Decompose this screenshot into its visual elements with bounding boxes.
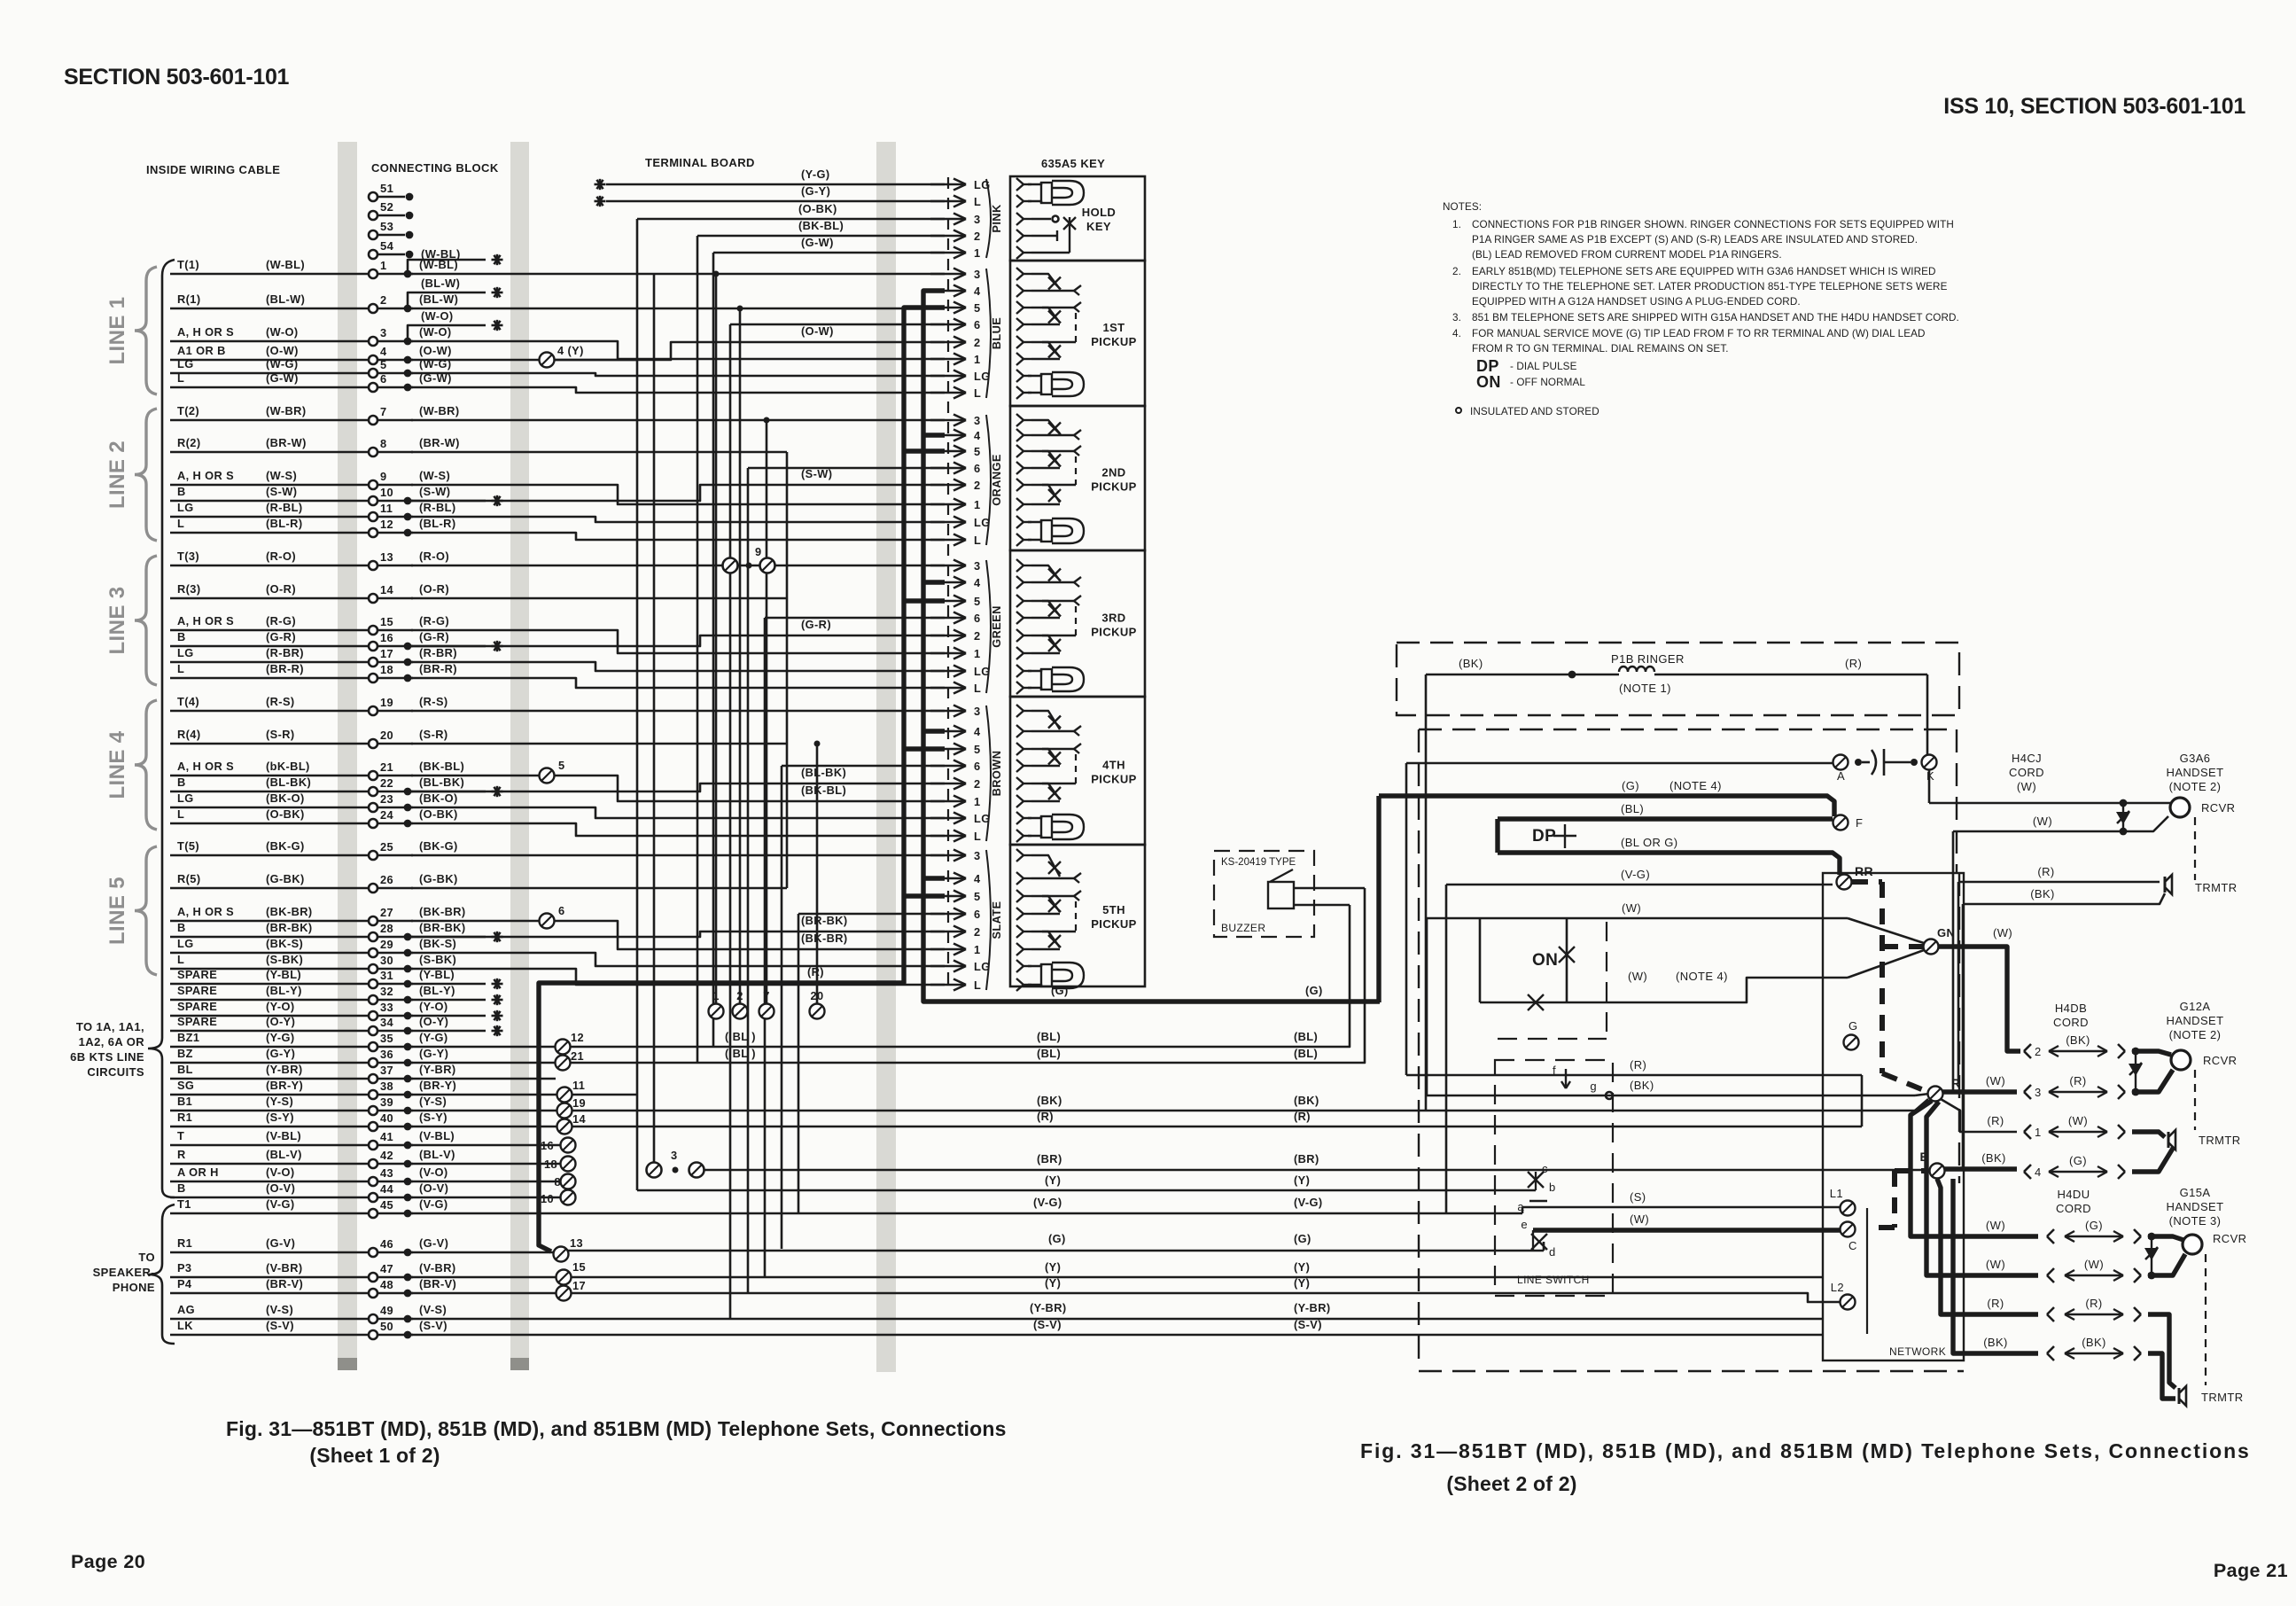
svg-text:29: 29 — [380, 938, 393, 951]
svg-text:3RD: 3RD — [1101, 612, 1125, 625]
ringer (R) lead to K — [1926, 674, 1929, 755]
thick bus to pickup terminals 4 / (G) lead — [923, 291, 1380, 1002]
brace group BROWN — [986, 706, 991, 841]
5TH PICKUP contacts — [1023, 854, 1031, 856]
arrow ORANGE 2 — [930, 484, 966, 487]
arrow BROWN 5 — [930, 748, 966, 751]
svg-text:FOR MANUAL SERVICE MOVE (G) TI: FOR MANUAL SERVICE MOVE (G) TIP LEAD FRO… — [1472, 328, 1926, 339]
brace LINE 2 — [135, 409, 157, 541]
2ND PICKUP contacts — [1023, 419, 1031, 421]
wire bus vertical x844 — [747, 468, 750, 1293]
svg-text:DP: DP — [1532, 827, 1556, 846]
cord wire (R) from R — [1941, 1099, 2017, 1132]
svg-text:48: 48 — [380, 1278, 393, 1291]
svg-text:A: A — [1837, 769, 1845, 783]
svg-text:851 BM TELEPHONE SETS ARE SHIP: 851 BM TELEPHONE SETS ARE SHIPPED WITH G… — [1472, 312, 1959, 324]
svg-text:8: 8 — [380, 437, 387, 450]
thick lead R to H4DU row2 — [1926, 1102, 2038, 1275]
arrow SLATE 5 — [930, 895, 966, 898]
svg-text:LINE SWITCH: LINE SWITCH — [1517, 1274, 1590, 1286]
svg-text:(G-V): (G-V) — [419, 1236, 448, 1250]
svg-text:R(1): R(1) — [177, 292, 200, 306]
svg-text:(G-Y): (G-Y) — [419, 1047, 448, 1060]
second off-normal contact — [1528, 994, 1544, 1010]
scan fold band 1 — [338, 142, 357, 1365]
svg-text:RCVR: RCVR — [2201, 801, 2235, 815]
wire to pickup arrow 6 — [748, 467, 945, 470]
svg-text:(W): (W) — [2033, 815, 2052, 828]
key unit box 2ND PICKUP — [1010, 406, 1145, 550]
svg-text:(G): (G) — [1048, 1232, 1066, 1245]
svg-text:5: 5 — [974, 301, 981, 315]
svg-text:(BK): (BK) — [2066, 1033, 2090, 1047]
svg-text:23: 23 — [380, 792, 393, 806]
arrow BROWN L — [930, 835, 966, 838]
brace group ORANGE — [986, 415, 991, 545]
key unit box HOLD KEY — [1010, 176, 1145, 261]
svg-text:(BK-BL): (BK-BL) — [419, 760, 464, 773]
svg-text:41: 41 — [380, 1130, 393, 1143]
RR thick dashed jumper to GN and R — [1852, 879, 1882, 885]
svg-text:L2: L2 — [1831, 1281, 1844, 1294]
svg-text:(R): (R) — [1845, 657, 1862, 670]
row 22 wire to BROWN arrow 2 — [411, 784, 945, 791]
svg-text:TERMINAL BOARD: TERMINAL BOARD — [645, 156, 755, 169]
svg-text:SPARE: SPARE — [177, 984, 217, 997]
svg-text:(BL): (BL) — [1037, 1047, 1061, 1060]
svg-text:(Y-S): (Y-S) — [419, 1095, 447, 1108]
svg-text:(G-R): (G-R) — [801, 618, 831, 631]
svg-text:(W-S): (W-S) — [266, 469, 297, 482]
wire bus vertical x863 — [764, 618, 767, 1277]
svg-text:HANDSET: HANDSET — [2167, 766, 2224, 779]
svg-text:(R): (R) — [1987, 1114, 2004, 1127]
svg-text:37: 37 — [380, 1064, 393, 1077]
svg-text:31: 31 — [380, 969, 393, 982]
svg-text:LG: LG — [177, 791, 194, 805]
svg-text:(BK): (BK) — [1294, 1094, 1319, 1107]
svg-text:BZ: BZ — [177, 1047, 193, 1060]
svg-text:51: 51 — [380, 182, 393, 195]
arrow BLUE 5 — [930, 307, 966, 309]
arrow SLATE 1 — [930, 948, 966, 951]
svg-text:(G-W): (G-W) — [266, 371, 299, 385]
RCVR G3A6 — [2170, 798, 2190, 817]
svg-text:3.: 3. — [1452, 312, 1461, 324]
svg-text:PICKUP: PICKUP — [1091, 626, 1137, 639]
svg-text:( BL ): ( BL ) — [725, 1047, 756, 1060]
svg-text:6: 6 — [974, 908, 981, 921]
thick stub arrow5 — [904, 598, 945, 603]
svg-text:GREEN: GREEN — [990, 605, 1003, 648]
svg-text:(BL-V): (BL-V) — [419, 1148, 455, 1161]
row 7 wire to ORANGE arrow 3 — [411, 419, 945, 422]
svg-text:(BL): (BL) — [1294, 1030, 1318, 1043]
arrow GREEN 6 — [930, 617, 966, 620]
svg-text:G15A: G15A — [2180, 1186, 2211, 1199]
row 14 wire to bus — [411, 597, 787, 600]
arrow GREEN 4 — [930, 581, 966, 584]
brace group GREEN — [986, 560, 991, 693]
thick stub arrow5 — [904, 448, 945, 453]
svg-text:(W): (W) — [1993, 926, 2012, 939]
H4DB cord conductor 1 (W) — [2024, 1125, 2031, 1132]
scan fold band 3 — [876, 142, 896, 1372]
svg-text:(R): (R) — [2085, 1297, 2102, 1310]
svg-text:6: 6 — [558, 904, 565, 917]
svg-text:EQUIPPED WITH A G12A HANDSET U: EQUIPPED WITH A G12A HANDSET USING A PLU… — [1472, 296, 1801, 308]
thick lead B to H4DU row3 — [1937, 1179, 2038, 1314]
svg-text:(G): (G) — [1305, 984, 1323, 997]
svg-text:L: L — [974, 682, 981, 695]
svg-text:(Y): (Y) — [1294, 1260, 1310, 1274]
svg-text:(W-O): (W-O) — [419, 325, 452, 339]
RCVR G12A — [2132, 1051, 2171, 1055]
svg-text:(Sheet 2 of 2): (Sheet 2 of 2) — [1446, 1472, 1576, 1495]
svg-text:H4DU: H4DU — [2058, 1188, 2090, 1201]
svg-text:9: 9 — [755, 545, 762, 558]
svg-text:(Y-G): (Y-G) — [266, 1031, 295, 1044]
wire to pickup arrow 6 — [798, 913, 945, 916]
key unit box 1ST PICKUP — [1010, 261, 1145, 406]
wire (R) from f — [1406, 1074, 1862, 1077]
svg-text:3: 3 — [974, 268, 981, 281]
svg-text:(BL-V): (BL-V) — [266, 1148, 302, 1161]
4TH PICKUP contacts — [1023, 710, 1031, 712]
svg-text:A, H OR S: A, H OR S — [177, 760, 234, 773]
thick stub arrow4 — [923, 876, 945, 880]
brace group BLUE — [986, 269, 991, 398]
svg-text:CORD: CORD — [2053, 1016, 2089, 1029]
svg-text:L: L — [974, 386, 981, 400]
svg-text:(G-R): (G-R) — [266, 630, 296, 643]
ringer coil wire — [1426, 674, 1619, 676]
thick stub arrow4 — [923, 580, 945, 584]
svg-text:(BL): (BL) — [1621, 802, 1644, 815]
svg-text:R(5): R(5) — [177, 872, 200, 885]
svg-text:HANDSET: HANDSET — [2167, 1200, 2224, 1213]
svg-text:PHONE: PHONE — [113, 1281, 155, 1294]
row 39 connector — [411, 1110, 557, 1112]
svg-text:CONNECTIONS FOR P1B RINGER SHO: CONNECTIONS FOR P1B RINGER SHOWN. RINGER… — [1472, 219, 1954, 230]
svg-text:(BL-BK): (BL-BK) — [266, 776, 311, 789]
svg-text:12: 12 — [380, 518, 393, 531]
arrow SLATE 3 — [930, 854, 966, 857]
svg-text:(Y-O): (Y-O) — [266, 1000, 295, 1013]
svg-text:(R-BL): (R-BL) — [266, 501, 302, 514]
insulated-stored stub row 31 — [408, 983, 486, 986]
svg-text:T(3): T(3) — [177, 550, 199, 563]
svg-text:22: 22 — [380, 776, 393, 790]
terminal B — [1930, 1164, 1945, 1179]
svg-text:(S-W): (S-W) — [419, 485, 450, 498]
svg-text:(R-BL): (R-BL) — [419, 501, 455, 514]
svg-text:(R-O): (R-O) — [266, 550, 296, 563]
thick bus to pickup terminals 5 — [539, 308, 945, 1251]
arrow SLATE LG — [930, 965, 966, 968]
svg-text:(NOTE 1): (NOTE 1) — [1619, 682, 1671, 695]
svg-text:LK: LK — [177, 1319, 193, 1332]
svg-text:46: 46 — [380, 1237, 393, 1251]
svg-text:LINE 3: LINE 3 — [105, 586, 129, 654]
row 11 wire to ORANGE LG — [411, 517, 945, 522]
svg-text:(V-S): (V-S) — [419, 1303, 447, 1316]
svg-text:(W): (W) — [1630, 1212, 1649, 1226]
svg-text:39: 39 — [380, 1095, 393, 1109]
B thick dashed feed — [1895, 1168, 1928, 1173]
arrow BROWN LG — [930, 817, 966, 820]
svg-text:(BK): (BK) — [1981, 1151, 2006, 1165]
svg-text:c: c — [1542, 1162, 1548, 1175]
arrow ORANGE 6 — [930, 467, 966, 470]
svg-text:TO 1A, 1A1,: TO 1A, 1A1, — [76, 1020, 144, 1033]
thick stub arrow4 — [923, 729, 945, 733]
svg-text:(O-W): (O-W) — [801, 324, 834, 338]
svg-text:L1: L1 — [1830, 1187, 1843, 1200]
RCVR G15A — [2148, 1236, 2183, 1240]
note insulated and stored — [1456, 408, 1461, 413]
P1B ringer dashed enclosure — [1397, 643, 1959, 715]
svg-text:(O-Y): (O-Y) — [266, 1015, 295, 1028]
svg-text:2: 2 — [380, 293, 387, 307]
svg-text:L: L — [177, 662, 184, 675]
arrow BLUE 2 — [930, 341, 966, 344]
svg-text:635A5 KEY: 635A5 KEY — [1041, 157, 1105, 170]
TRMTR G3A6 — [2165, 875, 2172, 894]
svg-text:(Y-O): (Y-O) — [419, 1000, 448, 1013]
terminal board dashed vertical — [947, 177, 949, 991]
svg-text:(W): (W) — [2084, 1258, 2104, 1271]
row 30 wire to SLATE L — [411, 969, 945, 985]
svg-text:21: 21 — [380, 760, 393, 774]
svg-text:(BK-O): (BK-O) — [419, 791, 458, 805]
svg-text:1A2, 6A OR: 1A2, 6A OR — [79, 1035, 145, 1049]
wire (Y) to line switch — [637, 1189, 1536, 1192]
svg-text:(BR-Y): (BR-Y) — [266, 1079, 303, 1092]
row 19 wire to BROWN arrow 3 — [411, 710, 945, 713]
arrow BLUE 4 — [930, 290, 966, 292]
off-normal wire — [1480, 1002, 1567, 1004]
wire (W) dial lead to GN — [1427, 917, 1848, 920]
svg-text:(S-Y): (S-Y) — [419, 1111, 448, 1124]
terminal F — [1833, 815, 1848, 830]
svg-text:(BK): (BK) — [2030, 887, 2055, 900]
svg-text:ORANGE: ORANGE — [990, 454, 1003, 506]
line switch contact d — [1531, 1234, 1547, 1250]
H4DB cord conductor 3 (R) — [2024, 1085, 2031, 1092]
row 24 wire to BROWN L — [411, 823, 945, 836]
arrow ORANGE LG — [930, 521, 966, 524]
wire (BK) to TRMTR — [1963, 893, 2165, 904]
svg-text:CIRCUITS: CIRCUITS — [87, 1065, 144, 1079]
svg-text:(Y): (Y) — [1294, 1173, 1310, 1187]
svg-text:RCVR: RCVR — [2213, 1232, 2246, 1245]
svg-text:L: L — [177, 953, 184, 966]
(G) thick vertical to key lead — [1376, 796, 1381, 1002]
terminal 4 wire down-bus — [555, 359, 637, 362]
arrow BLUE LG — [930, 375, 966, 378]
svg-text:Fig. 31—851BT (MD), 851B (MD),: Fig. 31—851BT (MD), 851B (MD), and 851BM… — [226, 1417, 1007, 1440]
svg-text:(BR-R): (BR-R) — [266, 662, 304, 675]
svg-text:L: L — [974, 534, 981, 547]
svg-text:SLATE: SLATE — [990, 900, 1003, 939]
svg-text:3: 3 — [974, 705, 981, 718]
svg-text:5: 5 — [974, 445, 981, 458]
svg-text:24: 24 — [380, 808, 394, 822]
svg-text:(BL) LEAD REMOVED FROM CURRENT: (BL) LEAD REMOVED FROM CURRENT MODEL P1A… — [1472, 249, 1782, 261]
svg-text:CONNECTING BLOCK: CONNECTING BLOCK — [371, 161, 499, 175]
branch row7 to test terminal 7 — [764, 417, 770, 424]
row 40 connector — [411, 1126, 557, 1128]
svg-text:3: 3 — [974, 559, 981, 573]
DP loop vertical — [1495, 819, 1499, 853]
svg-text:2: 2 — [974, 479, 981, 492]
svg-text:50: 50 — [380, 1320, 393, 1333]
svg-text:5TH: 5TH — [1102, 903, 1125, 916]
svg-text:30: 30 — [380, 954, 393, 967]
insulated-stored stub row 33 — [408, 1015, 486, 1017]
row 4 wire through terminal 4(Y) to BLUE arrow 2 — [411, 359, 539, 362]
arrow ORANGE L — [930, 539, 966, 542]
svg-text:L: L — [974, 195, 981, 208]
svg-text:R1: R1 — [177, 1236, 192, 1250]
wire (Y) row47 — [556, 1270, 572, 1285]
row 44 connector — [411, 1197, 561, 1199]
svg-text:12: 12 — [571, 1031, 584, 1044]
wire (W) note4 to GN — [1567, 978, 1848, 1002]
svg-text:42: 42 — [380, 1149, 393, 1162]
svg-text:(BK-BL): (BK-BL) — [801, 784, 846, 797]
svg-text:10: 10 — [541, 1192, 554, 1205]
svg-text:(G-BK): (G-BK) — [266, 872, 305, 885]
svg-text:(S-W): (S-W) — [266, 485, 297, 498]
svg-text:(V-G): (V-G) — [1294, 1196, 1323, 1209]
terminal C — [1841, 1222, 1856, 1237]
row 10 wire to ORANGE arrow 2 — [411, 485, 945, 501]
key unit box 5TH PICKUP — [1010, 845, 1145, 986]
thick lead to H4DU row4 — [1953, 1179, 2038, 1353]
svg-text:4: 4 — [2035, 1166, 2042, 1179]
svg-text:TRMTR: TRMTR — [2195, 881, 2238, 894]
arrow GREEN 3 — [930, 565, 966, 567]
svg-text:R: R — [177, 1148, 186, 1161]
network box — [1823, 873, 1964, 1360]
svg-text:(V-G): (V-G) — [1621, 868, 1650, 881]
svg-text:(BR-BK): (BR-BK) — [266, 921, 313, 934]
svg-text:3: 3 — [974, 849, 981, 862]
row 28 wire to SLATE arrow 2 — [411, 932, 945, 937]
row 38 connector — [411, 1094, 557, 1096]
svg-text:4: 4 — [974, 576, 981, 589]
svg-text:(W): (W) — [2068, 1114, 2088, 1127]
svg-text:(BL-W): (BL-W) — [421, 277, 460, 290]
svg-text:INSULATED AND STORED: INSULATED AND STORED — [1470, 406, 1599, 417]
wire (S-V) row50 — [411, 1334, 1823, 1337]
svg-text:(W-S): (W-S) — [419, 469, 450, 482]
svg-text:(BL-Y): (BL-Y) — [266, 984, 302, 997]
svg-text:10: 10 — [380, 486, 393, 499]
svg-text:1: 1 — [974, 943, 981, 956]
insulated-stored stub row 28 — [408, 936, 486, 939]
svg-text:A, H OR S: A, H OR S — [177, 905, 234, 918]
svg-text:(BR-W): (BR-W) — [266, 436, 307, 449]
varistor G3A6 — [2122, 803, 2124, 831]
svg-text:LINE 1: LINE 1 — [105, 296, 129, 364]
terminal 11 row 38 — [557, 1088, 572, 1103]
svg-text:PICKUP: PICKUP — [1091, 480, 1137, 494]
telephone set dashed enclosure right lower — [1958, 873, 1960, 1183]
svg-text:(BK-BR): (BK-BR) — [419, 905, 466, 918]
svg-text:(V-G): (V-G) — [1033, 1196, 1062, 1209]
svg-text:BL: BL — [177, 1063, 193, 1076]
svg-text:e: e — [1521, 1218, 1528, 1231]
svg-text:(NOTE 2): (NOTE 2) — [2169, 1028, 2222, 1041]
svg-text:3: 3 — [671, 1149, 678, 1162]
svg-text:36: 36 — [380, 1048, 393, 1061]
svg-text:(R-S): (R-S) — [266, 695, 295, 708]
svg-text:(W): (W) — [2017, 780, 2036, 793]
arrow GREEN 2 — [930, 635, 966, 637]
svg-text:33: 33 — [380, 1001, 393, 1014]
varistor G12A — [2135, 1051, 2136, 1092]
svg-text:6: 6 — [380, 372, 387, 386]
terminal L1 — [1841, 1201, 1856, 1216]
wire bus vertical x738 — [653, 274, 656, 1170]
telephone set dashed enclosure left — [1418, 729, 1420, 1367]
svg-text:6B KTS LINE: 6B KTS LINE — [70, 1050, 144, 1064]
row 9 wire to ORANGE arrow 1 — [411, 485, 945, 504]
terminal RR — [1837, 875, 1852, 890]
svg-text:25: 25 — [380, 840, 393, 854]
brace LINE 1 — [135, 267, 157, 394]
svg-text:R(3): R(3) — [177, 582, 200, 596]
svg-text:(BL): (BL) — [1294, 1047, 1318, 1060]
svg-text:P4: P4 — [177, 1277, 192, 1290]
svg-text:28: 28 — [380, 922, 393, 935]
2ND PICKUP lamp — [1028, 520, 1041, 522]
brace LINE 5 — [135, 846, 157, 975]
svg-text:A, H OR S: A, H OR S — [177, 325, 234, 339]
svg-text:40: 40 — [380, 1111, 393, 1125]
svg-text:2: 2 — [974, 230, 981, 243]
terminal A — [1833, 755, 1848, 770]
varistor G15A — [2151, 1236, 2152, 1275]
terminal R — [1928, 1087, 1943, 1102]
svg-text:44: 44 — [380, 1182, 394, 1196]
svg-text:CORD: CORD — [2056, 1202, 2091, 1215]
svg-text:T: T — [177, 1129, 184, 1142]
arrow SLATE 6 — [930, 913, 966, 916]
svg-text:1: 1 — [974, 795, 981, 808]
svg-text:7: 7 — [380, 405, 387, 418]
svg-text:4 (Y): 4 (Y) — [557, 344, 584, 357]
wire to pickup arrow 6 — [782, 765, 945, 768]
svg-text:PINK: PINK — [990, 204, 1003, 233]
svg-text:13: 13 — [570, 1236, 583, 1250]
svg-text:7: 7 — [763, 989, 770, 1002]
svg-text:B: B — [177, 776, 186, 789]
svg-text:(G): (G) — [1294, 1232, 1311, 1245]
svg-text:- DIAL PULSE: - DIAL PULSE — [1510, 361, 1577, 372]
1ST PICKUP contacts — [1023, 273, 1031, 275]
svg-text:1ST: 1ST — [1102, 321, 1125, 334]
insulated-stored stub row 34 — [408, 1030, 486, 1033]
wire (BL) row35 to buzzer — [556, 1040, 571, 1055]
wire bus vertical x719 — [636, 219, 639, 1190]
wire (G-W) to PINK 1 — [713, 252, 945, 254]
row 8 wire to bus — [411, 451, 787, 454]
svg-text:1.: 1. — [1452, 219, 1461, 230]
